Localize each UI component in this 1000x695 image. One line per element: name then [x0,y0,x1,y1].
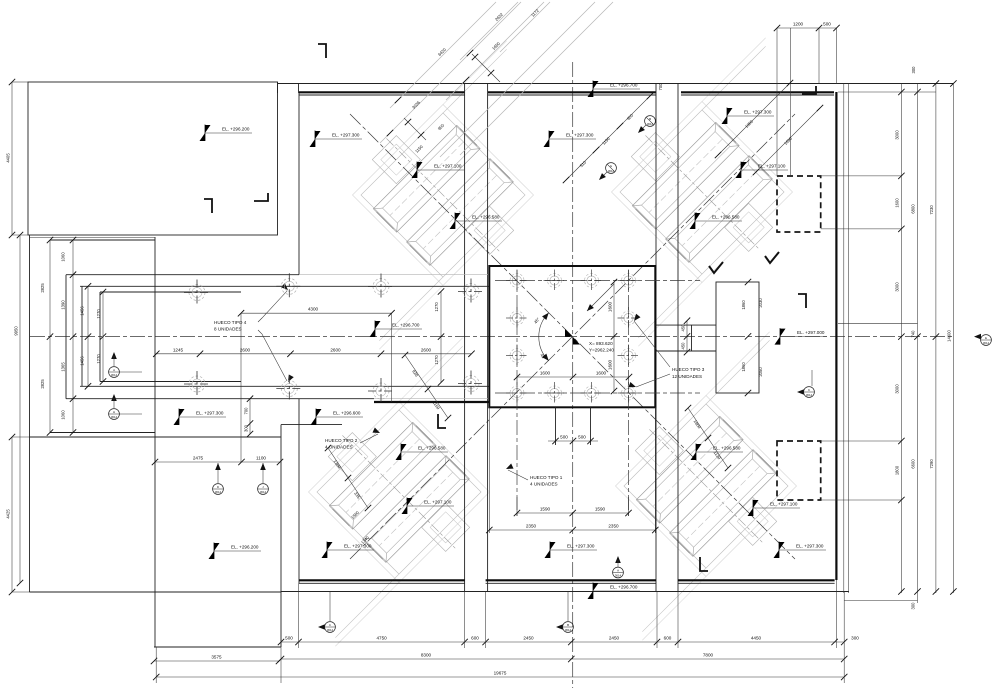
right stub y=323.3 [838,322,918,324]
left dim column 1456 [87,286,89,386]
svg-text:3614: 3614 [327,628,334,632]
svg-text:1860: 1860 [741,362,746,372]
bay3 diagonal dim line a [718,83,790,155]
level marker EL +297.300 bottom a [322,542,375,559]
section marker H [109,394,142,419]
right stub y=228.9 [821,228,901,230]
svg-text:EL. +296.580: EL. +296.580 [712,215,740,220]
dim 700/300 [249,399,251,434]
svg-text:2825: 2825 [40,283,45,293]
horizontal main centerline [30,336,953,338]
array3 diagonal dim a [405,355,448,418]
right dim line D [935,84,937,594]
svg-text:H: H [113,410,115,414]
svg-text:4425: 4425 [6,509,11,519]
45 degree arc [539,313,549,361]
svg-text:EL. +297.100: EL. +297.100 [770,502,798,507]
roof edge thick bay2 bottom [486,579,656,581]
svg-text:900: 900 [626,112,635,121]
wing dim 1270/1270 right [440,292,442,383]
right dim stack vertical line b [847,84,849,594]
level marker EL +297.100 bay1 [412,162,465,179]
skylight array band A1 (top-left, hueco group) [278,30,609,361]
svg-text:G: G [610,164,612,168]
svg-text:B: B [567,623,569,627]
grid centerline col1 [516,270,518,516]
svg-text:335: 335 [353,491,361,500]
level marker EL +297.100 bottom-right [748,500,801,517]
grid circle r2c4 [618,307,640,329]
leader from HUECO4 to bottom circle [258,330,287,381]
svg-text:HUECO TIPO 2: HUECO TIPO 2 [325,438,358,443]
wing inner bottom line [100,381,241,383]
section marker M diag [636,113,658,135]
right building edge thick [835,92,837,580]
bottom-left dim 3575 [154,660,279,662]
check mark b [709,262,723,273]
grid centerline row4 [495,392,700,394]
left dim 2825 pair [49,240,51,433]
wing bottom thick segment [374,401,489,403]
level marker EL +296.200 bottom-left [209,543,262,560]
top diagonal fan line 1650 [446,2,544,100]
corner mark bay3 mid [798,294,806,308]
top diagonal fan line 2632 [460,2,518,60]
leader from HUECO4 to top circle [258,291,287,322]
svg-text:3614: 3614 [806,393,813,397]
bay3 diagonal dim line b [756,108,820,172]
svg-text:6800: 6800 [911,204,916,214]
level marker EL +296.700 top [588,81,641,98]
svg-text:1060: 1060 [61,252,66,262]
leader to grid circle upper [634,321,670,367]
left dim column 1060/1390/1365/1060 [72,240,74,433]
wing column marker row1 c2 [276,273,302,299]
level marker EL +297.100 bottom-center [402,498,455,515]
right stub y=175.9 [821,175,901,177]
2350/2350 dim [489,529,655,531]
svg-text:EL. +296.580: EL. +296.580 [472,215,500,220]
roof edge thick bay1 top [299,91,465,93]
level marker EL +296.580 bottom-center [396,444,449,461]
svg-text:45°: 45° [533,316,541,324]
skylight array band A4 (bottom-right) [541,321,872,652]
level marker EL +297.300 bay3 [722,108,775,125]
section marker bottom-center up [613,556,624,578]
grid centerline col4 [628,270,630,516]
gap wall x=678 [677,84,679,591]
svg-text:E: E [985,336,987,340]
svg-text:7800: 7800 [703,653,714,658]
svg-text:2450: 2450 [523,636,534,641]
top diagonal fan line 1 [440,2,595,157]
svg-text:1600: 1600 [608,301,613,312]
svg-text:1800: 1800 [895,465,900,475]
wing left wall mid [81,286,83,386]
roof edge thick bay3 bottom [678,579,835,581]
wing left wall inner [99,292,101,382]
bottom tie thin line [281,591,849,593]
svg-text:4450: 4450 [751,636,762,641]
svg-text:4 UNIDADES: 4 UNIDADES [530,482,558,487]
central square thick outline [489,266,655,407]
svg-text:1600: 1600 [895,198,900,208]
bottom dim line 2 [281,658,844,660]
gap wall x=464.6 [464,84,466,591]
svg-text:1245: 1245 [173,347,184,352]
svg-text:EL. +296.580: EL. +296.580 [418,446,446,451]
svg-text:EL. +296.700: EL. +296.700 [610,585,638,590]
dim 1200/500 top right [777,27,837,29]
top diagonal fan line 3036 [380,2,521,143]
right dim stack vertical line a [843,84,845,594]
main diagonal centerline D+ [350,114,795,559]
1860/1860 vertical dim [745,279,751,285]
svg-text:1060: 1060 [61,410,66,420]
right stub y=441 [821,440,901,442]
svg-text:450: 450 [681,324,686,332]
grid circle r1c4 [618,270,640,292]
svg-text:2475: 2475 [193,456,204,461]
svg-text:45°: 45° [539,353,547,361]
fan cross dim b [404,118,426,140]
right dim line C [917,84,919,604]
left dim column 4405 [11,82,13,235]
wing column marker row1 c3 [368,274,394,300]
svg-text:3614: 3614 [615,574,622,578]
bay1 left wall lower [298,399,300,583]
wing inner top line [100,291,241,293]
tall rectangle right of square [716,282,759,393]
wing column marker row2 c4 [458,371,484,397]
svg-text:EL. +297.000: EL. +297.000 [797,330,825,335]
svg-text:1456: 1456 [80,306,85,316]
level marker EL +297.300 bay1 [310,131,363,148]
top diagonal fan line 6420 [390,2,496,108]
svg-text:920: 920 [411,369,419,378]
left tie stubs [12,81,28,83]
corner mark top-left bay [318,44,326,58]
skylight array band A2 (top-right) [537,27,868,358]
right stub y=600.5 [844,600,918,602]
level marker EL +297.300 bottom c [774,542,827,559]
level marker EL +297.300 bay2 [544,131,597,148]
500/500 dim below square [555,407,557,445]
svg-text:3614: 3614 [111,373,118,377]
svg-text:J: J [262,485,264,489]
top-left room rectangle [28,82,278,235]
svg-text:1270: 1270 [96,309,101,319]
svg-text:HUECO TIPO 3: HUECO TIPO 3 [672,367,705,372]
svg-text:HUECO TIPO 1: HUECO TIPO 1 [530,475,563,480]
svg-text:1200: 1200 [793,22,804,27]
svg-text:EL. +297.100: EL. +297.100 [758,164,786,169]
svg-text:1456: 1456 [80,356,85,366]
right dim line E [952,84,954,594]
right dim line B [900,84,902,594]
svg-text:500: 500 [560,435,568,440]
bay1 left wall upper [298,93,300,275]
left dim column 1270 [102,292,104,382]
450/450 dim [686,321,688,352]
svg-text:8 UNIDADES: 8 UNIDADES [214,327,242,332]
svg-text:500: 500 [823,22,831,27]
level marker EL +296.580 bay1 [450,213,503,230]
svg-text:3614: 3614 [111,415,118,419]
svg-text:2030: 2030 [758,298,763,308]
wing dim 1245/2600/2600/2600 [156,353,471,355]
level marker EL +296.580 bottom-right [691,444,744,461]
svg-text:1600: 1600 [596,371,607,376]
svg-text:3614: 3614 [983,341,990,345]
roof edge thick bay3 top [681,91,834,93]
svg-text:4750: 4750 [376,636,387,641]
level marker EL +297.000 right [775,328,828,345]
svg-text:A: A [617,569,619,573]
section marker C [318,592,335,633]
svg-text:EL. +297.100: EL. +297.100 [424,500,452,505]
svg-text:1100: 1100 [256,456,266,461]
svg-text:HUECO TIPO 4: HUECO TIPO 4 [214,320,247,325]
check mark a [765,252,779,263]
svg-text:740: 740 [911,330,916,338]
svg-text:1590: 1590 [540,507,551,512]
svg-text:2450: 2450 [609,636,620,641]
inner horizontal dim 1600/1600 [517,376,629,378]
level marker EL +297.300 wing bottom [174,409,227,426]
wall x=155 vertical [154,237,156,647]
svg-text:500: 500 [578,435,586,440]
grid circle r3c1 [506,345,528,367]
wing dim 4300 [241,312,392,314]
svg-text:300: 300 [911,602,916,610]
inner vertical dim line 1600/1600 [613,282,615,391]
leader HUECO TIPO 2 [360,434,378,443]
svg-text:3614: 3614 [647,122,654,126]
left dim 9950 [19,235,21,583]
svg-text:1390: 1390 [61,300,66,310]
vertical main centerline [572,62,574,688]
svg-text:1270: 1270 [434,355,439,365]
svg-text:700: 700 [658,83,663,91]
section marker K [797,370,814,397]
dashed rect bottom-right [777,441,821,500]
bottom extension lines [155,647,157,683]
level marker EL +297.100 bay3 [736,162,789,179]
corner mark room a [204,199,212,213]
vertical line x=790 upper [789,28,791,176]
notch vertical at x=277 [277,82,279,93]
tie line y=240 [50,239,155,241]
svg-text:700: 700 [244,407,249,415]
level marker EL +296.200 top-left [200,125,253,142]
section marker D [213,463,224,494]
grid centerline row1 [495,280,700,282]
svg-text:3036: 3036 [411,99,422,110]
svg-text:3614: 3614 [260,490,267,494]
svg-text:1150: 1150 [601,136,611,146]
svg-text:3614: 3614 [215,490,222,494]
svg-text:3000: 3000 [895,384,900,394]
grid circle r4c2 [544,382,566,404]
diagonal arrow to center [587,284,614,311]
main diagonal centerline D- [350,114,795,559]
corner mark bottom bay2 [438,414,446,428]
svg-text:19675: 19675 [494,671,507,676]
svg-text:EL. +297.300: EL. +297.300 [566,133,594,138]
bottom dim line 3 [156,676,844,678]
svg-text:2350: 2350 [526,524,537,529]
grid circle r4c4 [618,382,640,404]
svg-text:3614: 3614 [608,169,615,173]
svg-text:X= 893.620: X= 893.620 [589,341,613,346]
svg-text:2600: 2600 [330,347,341,352]
svg-text:12 UNIDADES: 12 UNIDADES [672,374,702,379]
check mark c [700,557,708,571]
svg-text:4300: 4300 [308,307,319,312]
wing bottom line 1 [66,398,374,400]
svg-text:300: 300 [244,424,249,432]
wing top line 1 [66,274,299,276]
svg-text:510: 510 [579,159,588,168]
bay2 diagonal dim cluster [566,96,650,180]
svg-text:EL. +296.600: EL. +296.600 [333,411,361,416]
svg-text:EL. +297.300: EL. +297.300 [744,110,772,115]
svg-text:3000: 3000 [895,130,900,140]
svg-text:9950: 9950 [14,326,19,336]
center point flag [565,329,573,337]
bottom-left room bottom edge [30,591,282,593]
wing column marker row2 c3 [368,378,394,404]
leader to grid circle lower [636,374,670,387]
svg-text:EL. +297.300: EL. +297.300 [796,544,824,549]
svg-text:300: 300 [851,636,859,641]
right stub y=92 [838,91,936,93]
wing column marker row1 c4 [458,279,484,305]
svg-text:2600: 2600 [421,347,432,352]
notch vertical at x=298 [298,84,300,94]
fan cross dim a [472,54,500,82]
vertical line x=777 upper [776,28,778,176]
svg-text:A: A [113,368,115,372]
right ticks C [914,89,920,95]
bottom dim line 1 [281,641,844,643]
outer top edge thin line [278,83,954,85]
section marker B [556,592,573,633]
svg-text:300: 300 [911,66,916,74]
svg-text:1860: 1860 [741,300,746,310]
svg-text:EL. +297.300: EL. +297.300 [332,133,360,138]
level marker EL +297.300 bottom b [545,542,598,559]
section marker J [258,463,269,494]
top diagonal fan line 1172 [500,2,550,52]
svg-text:8300: 8300 [421,653,432,658]
grid circle r1c1 [506,270,528,292]
svg-text:3575: 3575 [211,655,222,660]
dashed rect top-right [777,176,821,232]
svg-text:2600: 2600 [240,347,251,352]
grid circle r1c2 [544,270,566,292]
svg-text:1600: 1600 [608,359,613,370]
level marker EL +296.700 wing [370,321,423,338]
svg-text:EL. +296.200: EL. +296.200 [222,127,250,132]
tie line y=432.5 [50,432,155,434]
array4 diagonal dim [688,408,728,468]
svg-text:1590: 1590 [595,507,606,512]
bottom-left strip right wall [280,425,282,647]
gap wall x=656 [655,84,657,591]
svg-text:2350: 2350 [608,524,619,529]
bottom strip bottom edge [154,646,281,648]
svg-text:EL. +296.200: EL. +296.200 [231,545,259,550]
level marker EL +296.600 wing bottom [311,409,364,426]
svg-text:C: C [329,623,331,627]
gap wall x=487.6 [487,84,489,591]
svg-text:900: 900 [437,122,446,131]
svg-text:500: 500 [285,636,293,641]
section marker A [109,352,142,377]
corner mark bay3 top [802,86,816,94]
right stub y=500 [821,499,901,501]
right ticks D [933,80,939,86]
svg-text:7230: 7230 [929,205,934,215]
wing top line 2 [80,285,489,287]
leader HUECO TIPO 1 [508,470,528,480]
grid circle r1c3 [581,270,603,292]
svg-text:1690: 1690 [783,135,794,146]
svg-text:14600: 14600 [947,330,952,342]
svg-text:1270: 1270 [434,302,439,312]
grid circle r4c3 [581,382,603,404]
right ticks E [950,80,956,86]
svg-text:1270: 1270 [96,354,101,364]
svg-text:3614: 3614 [565,628,572,632]
right stub top [655,324,716,326]
svg-text:M: M [649,117,652,121]
roof edge thick bay2 top [488,91,656,93]
svg-text:4405: 4405 [6,153,11,163]
roof edge thick bay1 bottom [299,579,465,581]
wing bottom line 2 [80,385,489,387]
svg-text:EL. +297.300: EL. +297.300 [344,544,372,549]
svg-text:600: 600 [471,636,479,641]
svg-text:1860: 1860 [693,419,703,430]
wing column marker row2 c2 [276,376,302,402]
corner mark room b [254,193,268,201]
top diagonal fan line 2 [460,2,613,155]
svg-text:450: 450 [681,342,686,350]
grid circle r4c1 [506,382,528,404]
left building wall [29,235,31,592]
svg-text:600: 600 [664,636,672,641]
svg-text:D: D [217,485,219,489]
right stub box vertical [691,325,693,351]
svg-text:1365: 1365 [61,362,66,372]
right ticks B [898,89,904,95]
grid circle r3c4 [618,345,640,367]
dim 2475/1100 [155,461,280,463]
svg-text:3000: 3000 [895,282,900,292]
1590/1590 dim [517,512,629,514]
svg-text:EL. +296.700: EL. +296.700 [610,83,638,88]
grid circle r2c1 [506,307,528,329]
svg-text:EL. +296.580: EL. +296.580 [713,446,741,451]
svg-text:EL. +297.300: EL. +297.300 [196,411,224,416]
svg-text:1150: 1150 [414,144,424,154]
wing column marker row2 c1 [184,371,210,397]
left-middle band bottom wall [30,436,281,438]
level marker EL +296.700 bottom-center [588,583,641,600]
